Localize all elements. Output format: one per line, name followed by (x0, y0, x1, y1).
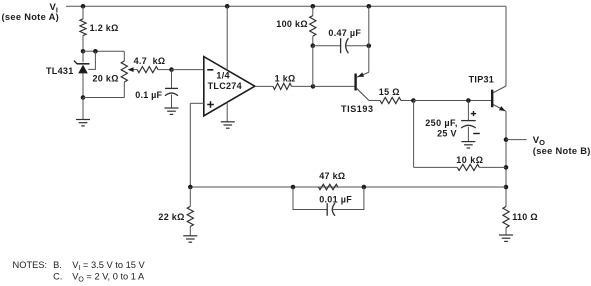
capacitor plus sign (471, 113, 476, 115)
resistor 100 kOhm (312, 6, 314, 15)
node 0.01uF right junction (362, 185, 367, 190)
capacitor 0.1 uF (171, 70, 173, 89)
resistor 4.7 kOhm (137, 67, 158, 73)
wire op-amp V+ supply (226, 6, 228, 70)
node inverting input junction (169, 67, 174, 72)
svg-text:1.2 kΩ: 1.2 kΩ (90, 23, 119, 33)
node TL431 reference tap (93, 49, 98, 54)
node op-amp supply tap (225, 4, 230, 9)
svg-text:TLC274: TLC274 (208, 81, 242, 91)
svg-text:B.: B. (53, 260, 62, 270)
node TIS193 emitter rail tap (367, 4, 372, 9)
node feedback junction (504, 185, 509, 190)
wire non-inverting input drop (189, 103, 191, 187)
svg-text:25 V: 25 V (437, 128, 457, 138)
capacitor minus sign (473, 133, 480, 135)
ground 110 Ohm (499, 234, 513, 236)
svg-text:NOTES:: NOTES: (13, 260, 48, 270)
node 0.01uF left junction (291, 185, 296, 190)
node 250uF junction (466, 98, 471, 103)
ground 0.1 uF (165, 107, 179, 109)
svg-text:C.: C. (53, 271, 62, 281)
wire anode to pot bottom (83, 97, 124, 99)
wire TL431 reference (88, 51, 95, 69)
resistor 1.2 kOhm (82, 6, 84, 19)
ground 22 kOhm (183, 235, 197, 237)
potentiometer 20 kOhm (123, 51, 125, 61)
svg-text:(see Note A): (see Note A) (2, 12, 60, 22)
ground op-amp (221, 121, 235, 123)
wire TIP31 emitter drop (505, 111, 507, 206)
wire top supply rail (66, 5, 506, 7)
svg-text:TL431: TL431 (46, 66, 74, 76)
wire feedback line (190, 186, 506, 188)
ground TL431 (76, 119, 90, 121)
node 15 Ohm output junction (411, 98, 416, 103)
shunt regulator TL431 (82, 51, 84, 62)
svg-text:4.7 kΩ: 4.7 kΩ (134, 56, 166, 66)
wire to op-amp inverting input (172, 69, 204, 71)
svg-text:22 kΩ: 22 kΩ (158, 212, 184, 222)
resistor 47 kOhm (318, 184, 338, 189)
resistor 22 kOhm (189, 187, 191, 206)
svg-text:VI = 3.5 V to 15 V: VI = 3.5 V to 15 V (72, 260, 145, 272)
svg-text:100 kΩ: 100 kΩ (276, 19, 308, 29)
resistor 15 Ohm (369, 100, 380, 102)
svg-text:110 Ω: 110 Ω (512, 212, 538, 222)
svg-text:250 µF,: 250 µF, (425, 118, 458, 128)
transistor TIS193 (354, 74, 356, 91)
wire cathode to pot top (83, 50, 124, 52)
op-amp minus sign (207, 69, 213, 71)
svg-text:1 kΩ: 1 kΩ (275, 74, 296, 84)
op-amp 1/4 TLC274 (204, 57, 255, 116)
node 100k / 0.47uF junction (311, 43, 316, 48)
wire 10k left drop (413, 101, 415, 168)
svg-text:15 Ω: 15 Ω (379, 87, 400, 97)
svg-text:TIP31: TIP31 (469, 75, 495, 85)
capacitor 0.01 uF (293, 187, 327, 210)
node 0.47uF / emitter junction (367, 43, 372, 48)
resistor 10 kOhm (414, 166, 458, 168)
svg-text:1/4: 1/4 (216, 71, 229, 81)
node op-amp output / TIS193 base net (311, 84, 316, 89)
pot wiper arrow (128, 67, 134, 72)
resistor 1 kOhm (255, 85, 273, 87)
node VO (504, 137, 509, 142)
svg-text:0.47 µF: 0.47 µF (328, 28, 361, 38)
node TL431 anode junction (81, 95, 86, 100)
resistor 110 Ohm (503, 207, 509, 228)
node 100k rail tap (311, 4, 316, 9)
svg-text:47 kΩ: 47 kΩ (319, 171, 345, 181)
svg-text:0.01 µF: 0.01 µF (319, 194, 352, 204)
wire 100k to base node (312, 46, 314, 87)
node feedback left junction (188, 185, 193, 190)
node 10k junction (504, 165, 509, 170)
svg-text:10 kΩ: 10 kΩ (456, 155, 483, 165)
wire op-amp V- to ground (226, 102, 228, 122)
capacitor 0.47 uF (313, 45, 341, 47)
transistor TIP31 (491, 90, 493, 108)
wire base line to TIP31 (413, 100, 491, 102)
wire TL431 to ground (82, 98, 84, 120)
wire right rail drop to TIP31 collector (505, 6, 507, 86)
wire non-inverting input (190, 102, 204, 104)
ground 250 uF (461, 141, 475, 143)
wire TIS193 emitter rail (368, 6, 370, 72)
wire VO stub (506, 139, 527, 141)
svg-text:VO = 2 V, 0 to 1 A: VO = 2 V, 0 to 1 A (72, 271, 145, 283)
node VI rail junction (81, 4, 86, 9)
node TL431 cathode junction (81, 49, 86, 54)
svg-text:TIS193: TIS193 (341, 104, 374, 114)
svg-text:20 kΩ: 20 kΩ (93, 74, 119, 84)
svg-text:(see Note B): (see Note B) (533, 146, 591, 156)
capacitor 250 uF 25 V (467, 101, 469, 121)
svg-text:0.1 µF: 0.1 µF (135, 90, 162, 100)
wire TIS193 base (313, 85, 354, 87)
op-amp plus sign (207, 104, 214, 106)
